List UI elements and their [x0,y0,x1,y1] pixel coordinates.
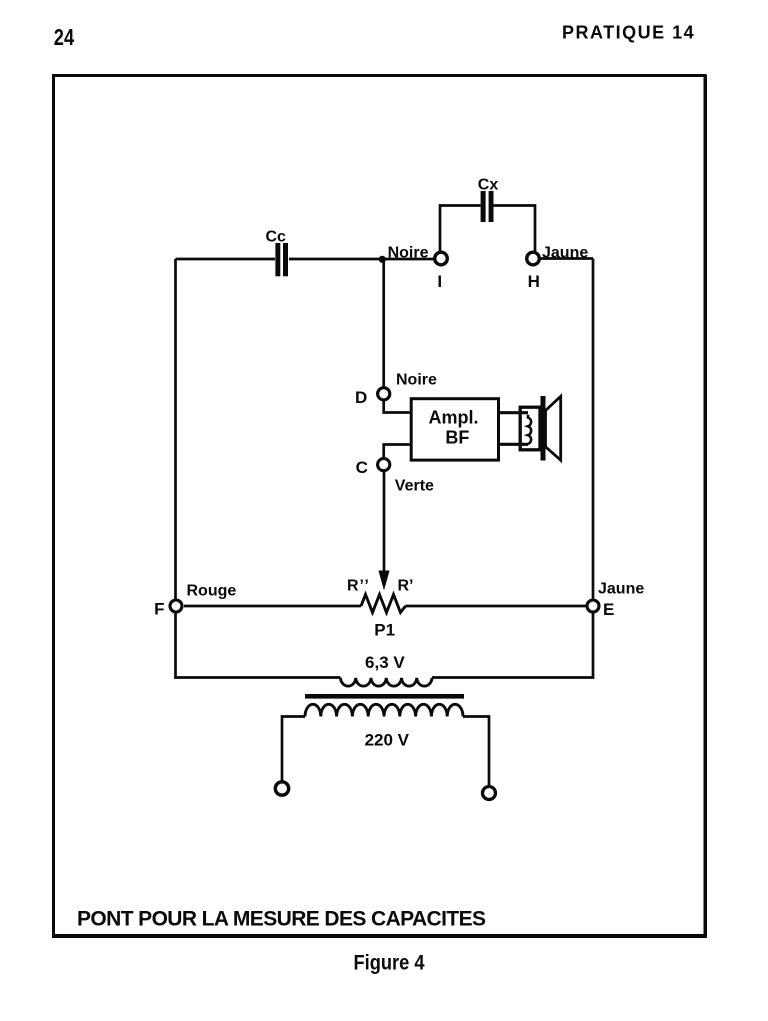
svg-text:Cx: Cx [478,177,499,194]
svg-text:C: C [356,458,368,477]
svg-text:Ampl.: Ampl. [428,407,478,427]
svg-text:Cc: Cc [265,229,286,246]
svg-text:R’’: R’’ [347,578,370,595]
svg-text:PRATIQUE 14: PRATIQUE 14 [562,23,695,43]
svg-text:D: D [355,388,367,407]
svg-text:P1: P1 [374,621,395,640]
svg-text:Jaune: Jaune [542,245,588,262]
svg-text:R’: R’ [398,578,414,595]
svg-text:I: I [437,272,442,291]
svg-text:Verte: Verte [395,477,434,494]
svg-text:H: H [528,272,540,291]
svg-text:Noire: Noire [396,372,437,389]
svg-text:24: 24 [54,24,74,50]
svg-text:Noire: Noire [388,245,429,262]
svg-text:Figure 4: Figure 4 [354,951,425,974]
svg-text:F: F [154,600,164,619]
svg-text:BF: BF [445,428,469,448]
svg-text:Jaune: Jaune [598,581,644,598]
svg-text:6,3 V: 6,3 V [365,653,405,672]
svg-text:Rouge: Rouge [187,583,237,600]
svg-text:PONT POUR LA MESURE DES CAPACI: PONT POUR LA MESURE DES CAPACITES [77,908,486,931]
svg-text:E: E [603,600,614,619]
svg-text:220 V: 220 V [365,731,410,750]
